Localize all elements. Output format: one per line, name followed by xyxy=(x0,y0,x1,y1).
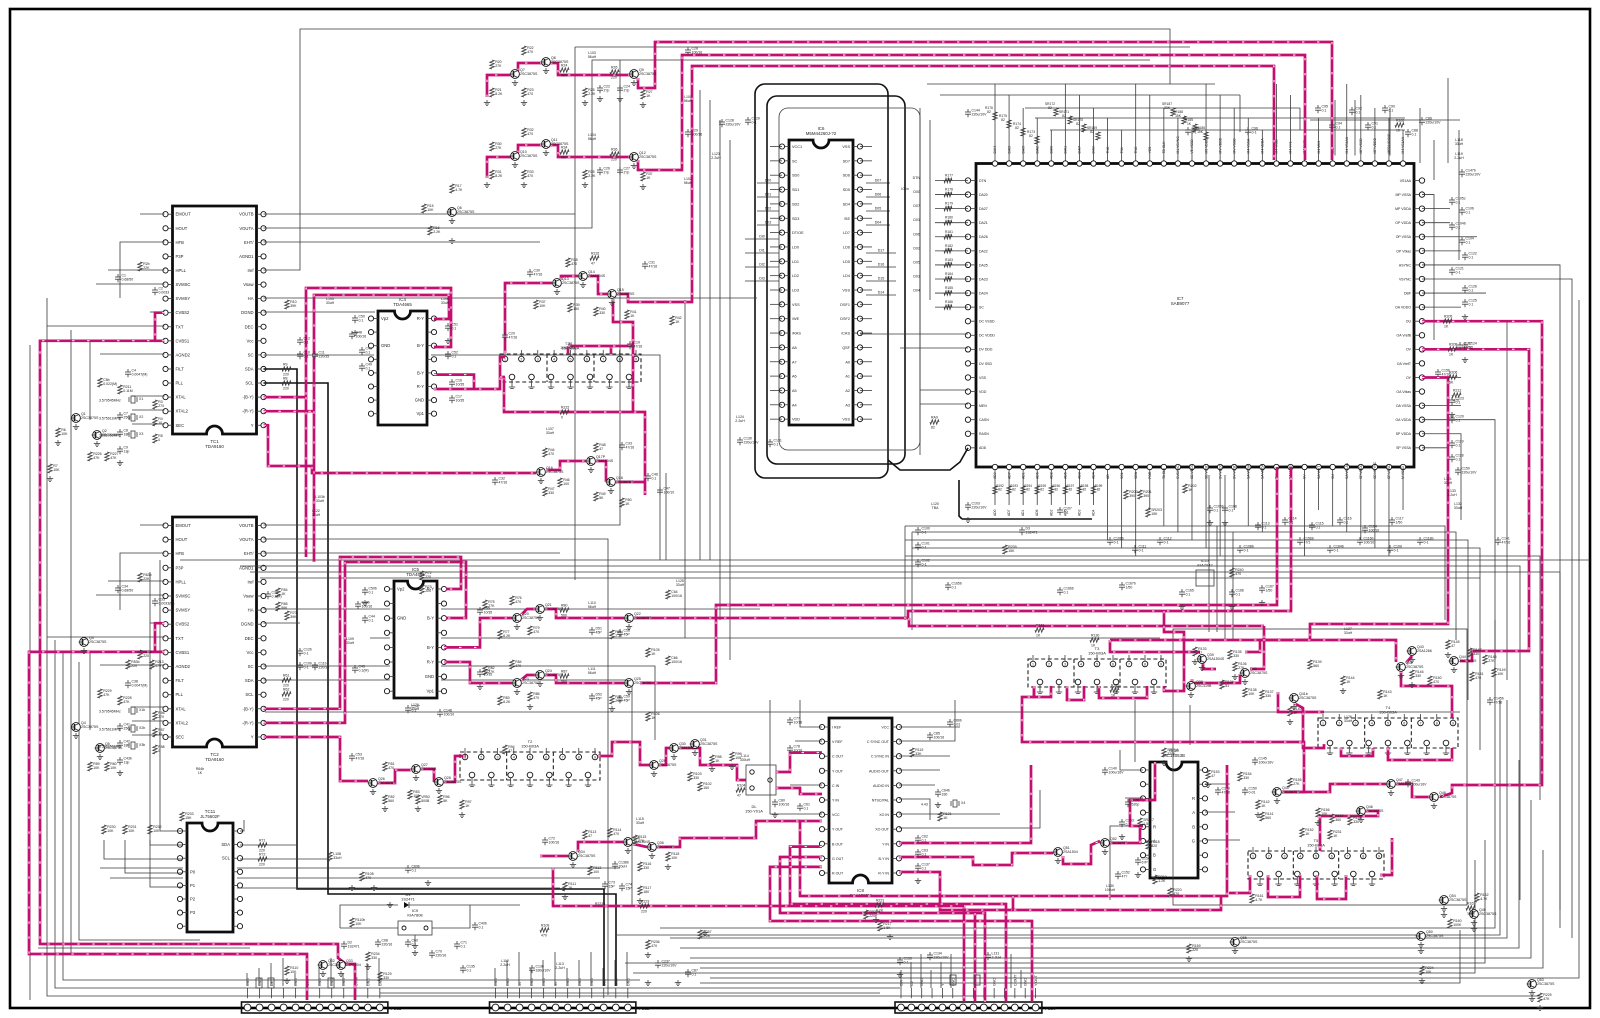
wire riser P210 a xyxy=(963,906,966,1002)
svg-text:5K: 5K xyxy=(1449,381,1454,385)
node D02 xyxy=(757,210,779,212)
ground xyxy=(47,476,53,482)
capacitor C118b xyxy=(1417,537,1434,546)
svg-text:VOUTA: VOUTA xyxy=(239,226,253,231)
svg-text:2SC3875S: 2SC3875S xyxy=(522,616,540,620)
svg-text:2.2K: 2.2K xyxy=(703,934,711,938)
svg-text:330: 330 xyxy=(942,793,948,797)
svg-text:CVBS2: CVBS2 xyxy=(176,310,190,315)
svg-text:1/50: 1/50 xyxy=(1126,586,1133,590)
svg-text:27K: 27K xyxy=(1293,782,1300,786)
ground xyxy=(352,330,358,336)
ground xyxy=(449,238,455,244)
resistor C64 xyxy=(666,590,682,599)
svg-text:Y OUT: Y OUT xyxy=(1034,974,1038,986)
svg-text:45P: 45P xyxy=(624,699,631,703)
resistor R2b xyxy=(138,262,150,271)
svg-text:0-1: 0-1 xyxy=(304,652,309,656)
svg-text:470: 470 xyxy=(527,50,533,54)
capacitor C71 xyxy=(454,941,467,950)
svg-text:OP VSSA: OP VSSA xyxy=(1396,235,1412,239)
svg-text:5: 5 xyxy=(1096,663,1098,667)
svg-text:R: R xyxy=(1192,796,1195,801)
capacitor C4 xyxy=(125,369,147,378)
svg-text:0-1: 0-1 xyxy=(1114,541,1119,545)
resistor R181 xyxy=(944,230,953,239)
svg-text:SD0: SD0 xyxy=(792,174,799,178)
svg-text:-(R-Y): -(R-Y) xyxy=(242,720,254,725)
capacitor C62 xyxy=(915,835,928,844)
capacitor C22 xyxy=(597,85,610,94)
svg-text:2SC3875S: 2SC3875S xyxy=(617,292,635,296)
resistor R132 xyxy=(1110,684,1119,698)
wire TC1 R-Y to IC4 pin16 xyxy=(264,295,450,411)
resistor R41 xyxy=(625,310,637,319)
svg-text:EMOUT: EMOUT xyxy=(176,212,192,217)
ground xyxy=(1529,996,1535,1002)
svg-text:0.1: 0.1 xyxy=(804,807,809,811)
svg-text:SAB9077: SAB9077 xyxy=(1171,301,1190,306)
svg-text:1K: 1K xyxy=(1036,634,1041,638)
resistor R22 xyxy=(522,46,534,55)
svg-text:100K: 100K xyxy=(1453,923,1462,927)
svg-text:0-1: 0-1 xyxy=(922,531,927,535)
ground xyxy=(415,806,421,812)
capacitor C78 xyxy=(787,745,802,754)
svg-text:1: 1 xyxy=(1322,722,1324,726)
capacitor C165b xyxy=(945,582,962,591)
delay line DL 150-Y01A xyxy=(746,765,776,795)
capacitor C136 xyxy=(529,965,551,974)
svg-text:56uH: 56uH xyxy=(588,55,597,59)
svg-text:10K: 10K xyxy=(427,208,434,212)
svg-text:470: 470 xyxy=(533,630,539,634)
svg-text:500B: 500B xyxy=(421,799,430,803)
svg-text:13p: 13p xyxy=(124,761,130,765)
svg-text:2SC3875S: 2SC3875S xyxy=(657,845,675,849)
svg-text:1: 1 xyxy=(1252,855,1254,859)
wire Q13-Q14 xyxy=(561,276,578,280)
svg-text:47K: 47K xyxy=(103,693,110,697)
svg-text:0.022(M): 0.022(M) xyxy=(103,382,117,386)
svg-text:0.1: 0.1 xyxy=(1316,526,1321,530)
svg-text:15K: 15K xyxy=(1197,130,1204,134)
svg-text:QSF: QSF xyxy=(842,346,850,350)
svg-text:22K: 22K xyxy=(143,577,150,581)
resistor R4 xyxy=(153,417,163,426)
transistor Q51 xyxy=(1053,846,1078,864)
svg-text:47/16: 47/16 xyxy=(509,336,518,340)
resistor R153 xyxy=(1206,770,1220,779)
delay line T1 150-B03A xyxy=(500,354,641,382)
capacitor C43 xyxy=(359,347,372,356)
resistor R80 xyxy=(560,604,569,618)
delay line T2 150-B03A xyxy=(460,752,600,780)
svg-text:Vp2: Vp2 xyxy=(397,587,405,592)
svg-text:390: 390 xyxy=(1129,494,1135,498)
resistor R149 xyxy=(1492,668,1506,677)
capacitor C48 xyxy=(349,331,366,340)
svg-text:HA: HA xyxy=(248,296,254,301)
wire Q38-Q40 link xyxy=(1192,674,1240,683)
capacitor C167 xyxy=(1259,585,1274,594)
svg-text:0.1: 0.1 xyxy=(1456,226,1461,230)
svg-text:1.2K: 1.2K xyxy=(1158,879,1166,883)
capacitor C94 xyxy=(1329,122,1342,131)
resistor R24 xyxy=(560,64,569,78)
wire loop exit xyxy=(888,448,968,470)
svg-text:SEC: SEC xyxy=(176,735,185,740)
svg-text:VS1AA: VS1AA xyxy=(1400,179,1412,183)
svg-text:R222: R222 xyxy=(561,406,569,410)
svg-text:22K: 22K xyxy=(143,266,150,270)
svg-text:56uH: 56uH xyxy=(588,605,597,609)
transistor Q34 xyxy=(568,850,596,868)
resistor R38 xyxy=(566,258,578,267)
svg-text:P0: P0 xyxy=(190,869,196,874)
svg-text:2SC3875S: 2SC3875S xyxy=(616,480,634,484)
resistor R235 xyxy=(138,650,152,659)
svg-text:Iref: Iref xyxy=(247,579,254,584)
connector pin box xyxy=(328,978,334,988)
svg-text:SDA: SDA xyxy=(245,366,254,371)
svg-text:DI3: DI3 xyxy=(759,277,765,281)
svg-text:D06: D06 xyxy=(913,232,920,236)
svg-text:0-1: 0-1 xyxy=(904,961,909,965)
svg-text:SD2: SD2 xyxy=(792,202,799,206)
capacitor C167b xyxy=(1119,582,1136,591)
svg-text:82: 82 xyxy=(1062,114,1066,118)
capacitor C49 xyxy=(359,363,372,372)
capacitor C117 xyxy=(1389,517,1404,526)
wire DL to IC8 C OUT xyxy=(776,753,822,772)
ground xyxy=(477,684,483,690)
svg-text:0.1: 0.1 xyxy=(1456,401,1461,405)
svg-text:R-Y: R-Y xyxy=(417,384,424,389)
svg-text:220u/10V: 220u/10V xyxy=(726,123,742,127)
svg-text:DC VDDD: DC VDDD xyxy=(979,334,995,338)
svg-text:HOUT: HOUT xyxy=(176,226,188,231)
resistor R72 xyxy=(420,571,432,580)
ground xyxy=(1419,978,1425,984)
resistor R76 xyxy=(510,596,522,605)
capacitor C141 xyxy=(1495,537,1510,546)
svg-text:100: 100 xyxy=(563,482,569,486)
ground xyxy=(582,100,588,106)
svg-text:33uH: 33uH xyxy=(316,499,325,503)
resistor R208 xyxy=(1448,343,1457,357)
svg-text:AD6: AD6 xyxy=(1035,509,1039,516)
resistor R17 xyxy=(450,184,463,193)
svg-text:D07: D07 xyxy=(875,179,882,183)
svg-text:27K: 27K xyxy=(638,839,645,843)
resistor R179 xyxy=(944,202,953,211)
svg-text:VCC1: VCC1 xyxy=(792,145,802,149)
resistor R97 xyxy=(460,800,472,809)
capacitor C7 xyxy=(117,412,131,421)
capacitor C85 xyxy=(927,732,944,741)
svg-text:2?p: 2?p xyxy=(624,171,630,175)
svg-text:0.1: 0.1 xyxy=(1469,256,1474,260)
resistor R84 xyxy=(510,660,522,669)
svg-text:1K: 1K xyxy=(465,804,470,808)
svg-text:DA20: DA20 xyxy=(979,193,988,197)
resistor R53 xyxy=(408,790,420,799)
capacitor C16 xyxy=(449,379,464,388)
capacitor C53 xyxy=(349,753,364,762)
svg-text:6: 6 xyxy=(586,358,588,362)
svg-text:SP VSSA: SP VSSA xyxy=(1396,446,1412,450)
svg-text:560: 560 xyxy=(561,74,567,78)
svg-text:0.1: 0.1 xyxy=(1372,126,1377,130)
svg-text:15K: 15K xyxy=(1175,114,1182,118)
ground xyxy=(897,972,903,978)
ground xyxy=(645,980,651,986)
ground xyxy=(1315,820,1321,826)
capacitor C150 xyxy=(1242,787,1257,796)
svg-text:LD2: LD2 xyxy=(792,274,799,278)
svg-text:10/35: 10/35 xyxy=(456,399,465,403)
svg-text:100uH: 100uH xyxy=(1105,888,1116,892)
transistor Q8 xyxy=(541,56,569,74)
svg-text:9: 9 xyxy=(1452,722,1454,726)
svg-text:0.0033: 0.0033 xyxy=(159,291,170,295)
ground xyxy=(965,517,971,523)
resistor R206 xyxy=(1448,371,1457,385)
capacitor C131 xyxy=(767,439,782,448)
resistor R240 xyxy=(1230,568,1244,577)
svg-text:520p: 520p xyxy=(1132,803,1140,807)
resistor R94 xyxy=(503,745,515,754)
svg-text:R34: R34 xyxy=(561,146,567,150)
svg-text:Y OUT: Y OUT xyxy=(832,769,844,773)
capacitor C109 xyxy=(1387,545,1402,554)
svg-text:R221: R221 xyxy=(876,899,884,903)
svg-text:DI0: DI0 xyxy=(759,235,765,239)
svg-text:2-2uH: 2-2uH xyxy=(735,419,745,423)
svg-text:330: 330 xyxy=(371,956,377,960)
svg-text:CASN: CASN xyxy=(979,418,989,422)
wire Q36 out xyxy=(657,821,800,847)
svg-text:15K: 15K xyxy=(185,816,192,820)
svg-text:0.68/50: 0.68/50 xyxy=(122,278,134,282)
svg-text:EHT/: EHT/ xyxy=(244,240,254,245)
capacitor C119 xyxy=(1449,440,1464,449)
capacitor C144 xyxy=(965,109,987,118)
capacitor C166b xyxy=(1057,587,1074,596)
resistor R231 xyxy=(123,825,137,834)
capacitor C101 xyxy=(915,542,930,551)
svg-text:GND: GND xyxy=(993,978,997,986)
resistor R105 xyxy=(646,648,660,657)
svg-text:47: 47 xyxy=(508,749,512,753)
resistor R139 xyxy=(1308,660,1322,669)
svg-text:2SC3875S: 2SC3875S xyxy=(1299,696,1317,700)
resistor R110 xyxy=(285,966,299,975)
svg-text:B OUT: B OUT xyxy=(832,842,844,846)
capacitor C27 xyxy=(617,167,630,176)
resistor R183 xyxy=(944,258,953,267)
svg-text:470: 470 xyxy=(1433,680,1439,684)
transistor Q23 xyxy=(512,677,540,695)
transistor Q47 xyxy=(1386,778,1414,796)
wire bundle line4 xyxy=(909,618,1264,626)
capacitor C116 xyxy=(1337,517,1352,526)
transistor Q31 xyxy=(690,738,718,756)
svg-text:0.1: 0.1 xyxy=(359,319,364,323)
transistor Q21 xyxy=(535,603,563,621)
svg-text:TBA: TBA xyxy=(932,506,939,510)
resistor R72 xyxy=(258,853,267,867)
resistor R217 xyxy=(878,922,892,931)
svg-text:2SC3875S: 2SC3875S xyxy=(1426,934,1444,938)
svg-text:Iref: Iref xyxy=(247,268,254,273)
svg-text:LD5: LD5 xyxy=(843,260,850,264)
svg-text:33K: 33K xyxy=(915,752,922,756)
svg-text:2SA1504S: 2SA1504S xyxy=(596,459,614,463)
wire IC5 B-Y out xyxy=(444,618,512,647)
svg-text:27K: 27K xyxy=(495,64,502,68)
ground xyxy=(582,182,588,188)
node D00 xyxy=(757,182,779,184)
svg-text:330: 330 xyxy=(1265,694,1271,698)
svg-text:220: 220 xyxy=(611,158,617,162)
svg-text:1K: 1K xyxy=(281,592,286,596)
resistor R173 xyxy=(1027,130,1039,144)
svg-text:2.2uH: 2.2uH xyxy=(1447,493,1457,497)
svg-text:2-2uH: 2-2uH xyxy=(1454,156,1464,160)
svg-text:47/16: 47/16 xyxy=(649,265,658,269)
svg-text:82: 82 xyxy=(947,290,951,294)
svg-text:250p: 250p xyxy=(124,416,132,420)
svg-text:33uH: 33uH xyxy=(326,301,335,305)
wire TC1 B-Y to IC4 pin14 xyxy=(264,288,452,397)
wire TC2 B-Y to IC5 xyxy=(264,557,462,709)
wire TC1 Y to Q16 row xyxy=(264,425,537,473)
capacitor C20 xyxy=(502,332,517,341)
svg-text:SCL: SCL xyxy=(222,856,231,861)
resistor R37 xyxy=(641,172,653,181)
ground xyxy=(1462,314,1468,320)
IC IC13 KIA7042 xyxy=(1196,570,1214,586)
ground xyxy=(1229,604,1235,610)
wire R-Y bundle xyxy=(634,467,1291,618)
svg-text:B: B xyxy=(1153,853,1156,858)
wire TC1 CVBS1 to P211 CVIM xyxy=(40,341,355,1000)
capacitor C152 xyxy=(1115,871,1130,880)
resistor R193 xyxy=(1007,484,1018,494)
resistor R160 xyxy=(1448,919,1462,928)
svg-text:VOUTB: VOUTB xyxy=(239,523,254,528)
svg-text:220: 220 xyxy=(143,654,149,658)
svg-text:0.1: 0.1 xyxy=(922,853,927,857)
resistor R225 xyxy=(1538,993,1552,1002)
node D03 xyxy=(757,224,779,226)
svg-text:D02: D02 xyxy=(765,207,772,211)
ground xyxy=(484,100,490,106)
svg-text:82: 82 xyxy=(1083,488,1087,492)
svg-text:VSS: VSS xyxy=(979,376,987,380)
svg-text:OA VrefT: OA VrefT xyxy=(1397,362,1412,366)
wire T5 loop a xyxy=(1229,875,1250,893)
svg-text:2.2K: 2.2K xyxy=(433,230,441,234)
capacitor C134 xyxy=(927,952,949,961)
capacitor C104 xyxy=(1459,237,1474,246)
svg-text:8.2K: 8.2K xyxy=(876,909,884,913)
wire T1 pin1 riser to Q13 xyxy=(505,283,552,353)
wire IC8 B-Y IN right xyxy=(899,853,1053,865)
wire row1 input xyxy=(487,75,511,97)
svg-text:330: 330 xyxy=(693,776,699,780)
svg-text:DGND: DGND xyxy=(241,310,253,315)
svg-text:0.1: 0.1 xyxy=(1229,509,1234,513)
capacitor C164b xyxy=(1327,545,1344,554)
svg-text:A1: A1 xyxy=(845,375,850,379)
resistor R134 xyxy=(1220,680,1234,689)
svg-text:0-1: 0-1 xyxy=(304,355,309,359)
svg-text:33uH: 33uH xyxy=(1344,719,1353,723)
ground xyxy=(609,706,615,712)
wire B-Y trunk xyxy=(305,397,308,557)
capacitor C145b xyxy=(1487,697,1504,706)
node D01 xyxy=(757,196,779,198)
svg-text:47/16: 47/16 xyxy=(534,273,543,277)
svg-text:10K: 10K xyxy=(290,970,297,974)
svg-text:330u/10V: 330u/10V xyxy=(536,969,552,973)
resistor SR203 xyxy=(1146,508,1162,517)
capacitor C69b xyxy=(405,865,420,874)
ground xyxy=(675,980,681,986)
ground xyxy=(1445,652,1451,658)
node DI1 xyxy=(745,252,779,254)
svg-text:220/35: 220/35 xyxy=(319,355,330,359)
svg-text:33uH: 33uH xyxy=(1444,481,1453,485)
svg-text:IC6n: IC6n xyxy=(901,187,908,191)
capacitor C59 xyxy=(617,695,630,704)
ground xyxy=(382,806,388,812)
transistor Q44 xyxy=(1449,655,1477,673)
capacitor C1 xyxy=(115,274,133,283)
capacitor C157 xyxy=(1457,342,1472,351)
svg-text:33uH: 33uH xyxy=(1455,142,1464,146)
svg-text:OA VDDO: OA VDDO xyxy=(1395,306,1411,310)
svg-text:10: 10 xyxy=(158,421,162,425)
svg-text:D15: D15 xyxy=(878,277,885,281)
svg-text:XTAL2: XTAL2 xyxy=(176,720,189,725)
resistor R114 xyxy=(608,828,622,837)
wire AD bus collector xyxy=(959,480,962,519)
transistor Q27 xyxy=(411,763,437,781)
resistor R184 xyxy=(944,272,953,281)
svg-text:0-1: 0-1 xyxy=(1394,549,1399,553)
resistor R146 xyxy=(1410,670,1424,679)
svg-text:82: 82 xyxy=(947,205,951,209)
resistor R222 xyxy=(560,406,569,420)
capacitor C90 xyxy=(1382,105,1395,114)
resistor R159 xyxy=(1187,944,1201,953)
svg-text:5: 5 xyxy=(1315,855,1317,859)
svg-text:0.1: 0.1 xyxy=(952,586,957,590)
ground xyxy=(371,885,377,891)
transistor Q6 xyxy=(447,206,475,224)
svg-text:39K: 39K xyxy=(290,304,297,308)
wire Q47-Q48 xyxy=(1396,784,1429,797)
capacitor C143 xyxy=(1405,779,1427,788)
svg-text:AUDIO IN: AUDIO IN xyxy=(873,784,889,788)
svg-text:D14: D14 xyxy=(878,291,885,295)
svg-text:470: 470 xyxy=(1475,676,1481,680)
ground xyxy=(597,96,603,102)
